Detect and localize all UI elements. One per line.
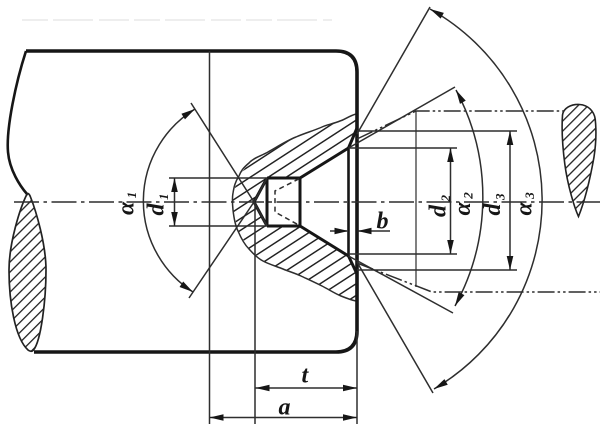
d3 extension lines bbox=[357, 131, 517, 270]
a arrow right bbox=[343, 414, 357, 421]
alpha2 arc arrow upper bbox=[453, 88, 466, 103]
a arrow left bbox=[210, 414, 224, 421]
alpha3 measuring line upper bbox=[357, 7, 430, 134]
d3 dimension line bbox=[509, 131, 511, 270]
alpha3 angle arc bbox=[430, 9, 542, 389]
reference extension line for a (long vertical) bbox=[209, 51, 211, 424]
a dimension line bbox=[210, 417, 358, 419]
centre hole: pilot bore rectangle bbox=[267, 178, 300, 226]
left break curve (upper) bbox=[8, 51, 27, 194]
alpha2 measuring line upper bbox=[349, 87, 456, 148]
d2 dimension line bbox=[450, 148, 452, 254]
t arrow right bbox=[343, 385, 357, 392]
svg-text:α1: α1 bbox=[114, 192, 140, 215]
svg-text:d2: d2 bbox=[426, 195, 454, 218]
t arrow left bbox=[256, 385, 270, 392]
svg-text:d3: d3 bbox=[480, 193, 508, 216]
alpha3 arc arrow lower bbox=[432, 379, 447, 392]
d2 extension lines bbox=[349, 148, 458, 254]
svg-text:α3: α3 bbox=[512, 192, 538, 216]
svg-text:t: t bbox=[302, 363, 310, 389]
svg-text:b: b bbox=[377, 209, 389, 235]
alpha1 arc arrow lower bbox=[180, 281, 195, 294]
centre hole: drill point (thick) bbox=[254, 178, 267, 226]
alpha3 arc arrow upper bbox=[428, 6, 443, 19]
d3 arrow up bbox=[507, 131, 514, 145]
workpiece outline (shaft end, thick) bbox=[26, 51, 357, 352]
d2 edge circle seen as line bbox=[347, 148, 350, 256]
hatched broken-out section fill around centre hole bbox=[233, 114, 357, 301]
d3 arrow down bbox=[507, 256, 514, 270]
left break lens (cross-section sliver) bbox=[9, 193, 46, 351]
alpha2 measuring line lower bbox=[349, 256, 454, 313]
d1 extension lines bbox=[169, 178, 267, 226]
phantom outline of mating centre: upper taper bbox=[357, 111, 564, 139]
face extension line bbox=[356, 331, 358, 424]
d2 arrow down bbox=[447, 240, 454, 254]
d1 arrow up bbox=[171, 178, 178, 192]
d2 arrow up bbox=[447, 148, 454, 162]
alpha1 arc arrow upper bbox=[181, 106, 196, 119]
alpha1 measuring line (lower drill flank extended) bbox=[191, 103, 267, 226]
alpha3 measuring line lower bbox=[357, 262, 433, 393]
centre hole: 60deg cone flanks bbox=[300, 148, 349, 256]
svg-text:α2: α2 bbox=[450, 192, 476, 216]
alpha1 angle arc bbox=[143, 109, 195, 292]
mating centre cone/cylinder transition edge bbox=[415, 111, 417, 287]
horizontal centreline (dash-dot) bbox=[14, 201, 600, 203]
faint scan bleed-through streak bbox=[22, 19, 332, 21]
alpha2 arc arrow lower bbox=[452, 292, 464, 307]
svg-text:d1: d1 bbox=[144, 194, 172, 216]
alpha2 angle arc bbox=[455, 90, 483, 306]
alpha1 measuring line (upper drill flank extended) bbox=[189, 178, 267, 298]
freehand outline of broken-out section bbox=[232, 114, 356, 301]
extension line for t bbox=[254, 202, 256, 424]
d1 arrow down bbox=[171, 212, 178, 226]
protective chamfer flanks bbox=[349, 128, 358, 274]
phantom outline of mating centre: lower taper bbox=[357, 263, 600, 292]
b dimension arrow right with label shelf bbox=[358, 230, 391, 232]
hidden tool contour in pilot bore (dashed) bbox=[275, 179, 299, 225]
t dimension line bbox=[256, 387, 358, 389]
b dimension arrow left bbox=[330, 230, 347, 232]
svg-text:a: a bbox=[279, 395, 291, 421]
d1 dimension line bbox=[174, 178, 176, 226]
right break lens of mating part (phantom) bbox=[562, 104, 596, 216]
